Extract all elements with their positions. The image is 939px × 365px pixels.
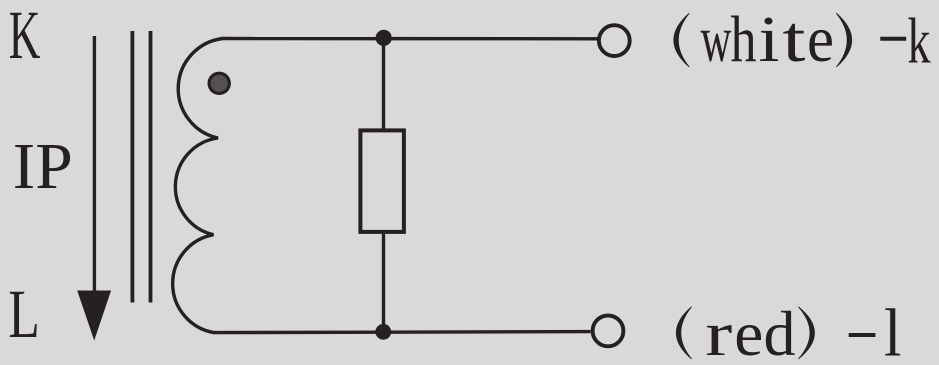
svg-text:e: e: [734, 298, 763, 365]
svg-text:L: L: [8, 276, 39, 352]
svg-text:h: h: [731, 3, 757, 76]
svg-text:r: r: [705, 298, 732, 365]
svg-text:w: w: [701, 3, 732, 76]
svg-text:k: k: [908, 5, 932, 76]
svg-text:t: t: [783, 3, 806, 76]
svg-text:e: e: [807, 3, 834, 76]
svg-text:K: K: [9, 0, 41, 73]
svg-text:d: d: [764, 298, 796, 365]
svg-text:l: l: [884, 296, 902, 365]
svg-text:IP: IP: [13, 130, 73, 203]
svg-text:i: i: [759, 3, 780, 76]
